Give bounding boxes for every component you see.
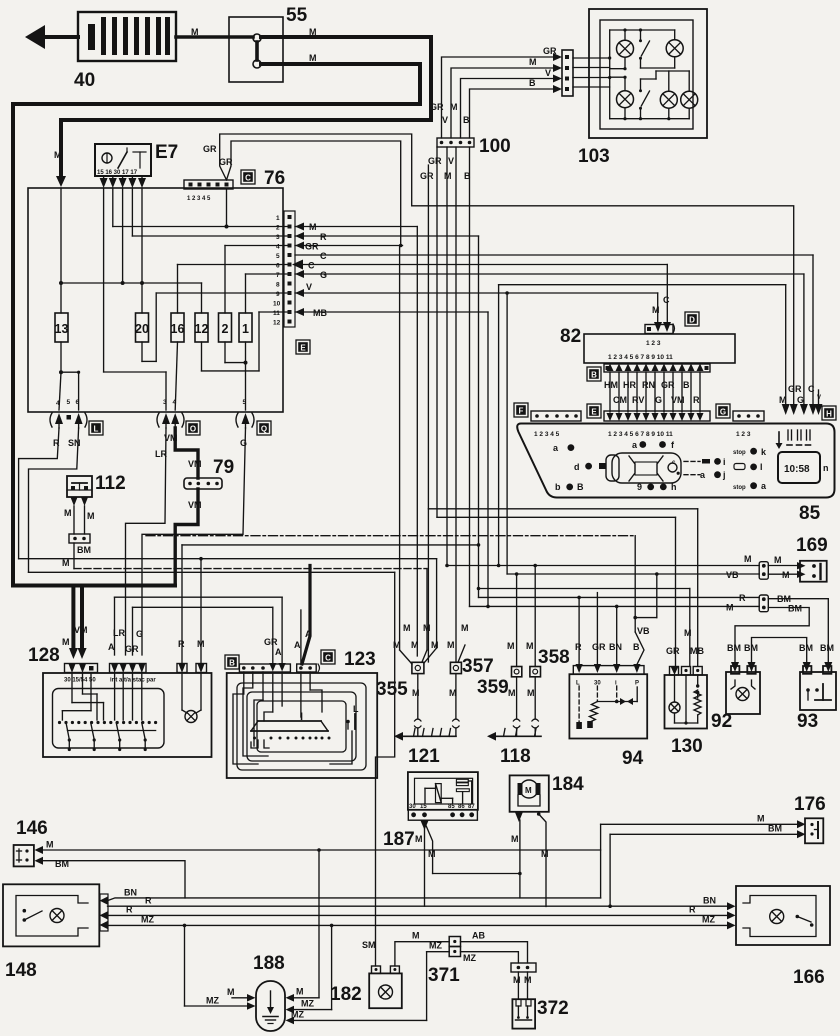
cluster car icon	[606, 453, 681, 483]
svg-text:GR: GR	[219, 157, 233, 167]
svg-text:R: R	[320, 232, 327, 242]
svg-text:E7: E7	[155, 142, 178, 163]
connector B of 123	[239, 663, 290, 672]
svg-text:85: 85	[799, 503, 821, 524]
svg-text:55: 55	[286, 5, 308, 26]
svg-text:GR: GR	[666, 646, 680, 656]
svg-text:stop: stop	[733, 485, 746, 491]
boxed label B	[587, 367, 601, 381]
svg-text:M: M	[309, 53, 317, 63]
connector E of cluster	[604, 411, 710, 438]
svg-text:355: 355	[376, 679, 408, 700]
svg-text:82: 82	[560, 326, 581, 347]
svg-text:MZ: MZ	[702, 915, 715, 925]
connector strip of 103	[553, 50, 573, 96]
svg-text:GR: GR	[125, 644, 139, 654]
svg-text:166: 166	[793, 967, 825, 988]
svg-text:M: M	[508, 688, 516, 698]
fuse 1	[239, 313, 252, 342]
wire BM 92 right to 93 left	[744, 638, 813, 673]
svg-text:GR: GR	[420, 171, 434, 181]
wire SN from connector L	[29, 428, 81, 572]
svg-text:O: O	[190, 425, 196, 434]
svg-text:VB: VB	[637, 626, 650, 636]
boxed label Q	[257, 421, 271, 435]
ground bus 118	[487, 729, 541, 768]
svg-text:BM: BM	[799, 643, 813, 653]
lamp unit 130	[665, 646, 708, 757]
svg-text:C: C	[308, 261, 315, 271]
wire M 100 to 103	[450, 57, 553, 138]
svg-text:182: 182	[330, 984, 362, 1005]
svg-text:176: 176	[794, 794, 826, 815]
ground connector 357	[447, 623, 494, 736]
svg-text:GR: GR	[305, 242, 319, 252]
svg-text:BM: BM	[768, 824, 782, 834]
svg-text:1 2 3 4 5 6 7 8 9 10 1: 1 2 3 4 5 6 7 8 9 10 11	[608, 431, 673, 438]
svg-text:1 2 3: 1 2 3	[736, 431, 751, 438]
svg-text:L: L	[94, 425, 99, 434]
wire GR to 128	[125, 607, 273, 655]
svg-text:M: M	[774, 555, 782, 565]
wire M to connector D	[652, 293, 670, 322]
internal wire pin C6 to fuse 16	[178, 265, 289, 314]
svg-text:MB: MB	[690, 646, 704, 656]
svg-text:D: D	[689, 316, 695, 325]
svg-text:146: 146	[16, 818, 48, 839]
svg-text:M: M	[423, 623, 431, 633]
svg-text:V: V	[817, 395, 821, 401]
svg-text:148: 148	[5, 960, 37, 981]
svg-text:6: 6	[276, 263, 280, 270]
connector above 372	[511, 963, 536, 999]
boxed label O	[186, 421, 200, 435]
svg-text:l: l	[760, 462, 763, 472]
boxed label H	[822, 406, 836, 420]
cluster stop indicators right	[733, 447, 767, 491]
svg-text:BM: BM	[77, 545, 91, 555]
svg-text:M: M	[525, 786, 532, 795]
connector 169	[796, 535, 828, 582]
fuse 2	[219, 313, 232, 342]
svg-text:VB: VB	[726, 570, 739, 580]
svg-text:C: C	[808, 384, 815, 394]
svg-text:79: 79	[213, 457, 234, 478]
svg-text:GR: GR	[428, 156, 442, 166]
fuse box 76 outline	[28, 188, 283, 412]
svg-text:12: 12	[273, 320, 281, 327]
svg-text:stop: stop	[733, 450, 746, 456]
wire M net y565	[445, 554, 759, 567]
internal wire fuse 2 bottom to fuse 1 bottom	[225, 342, 248, 410]
antenna arrow	[25, 25, 78, 49]
svg-text:5: 5	[243, 399, 247, 406]
svg-text:359: 359	[477, 677, 509, 698]
svg-text:7: 7	[276, 272, 280, 279]
svg-text:M: M	[684, 628, 692, 638]
boxed label E	[296, 340, 310, 354]
svg-text:92: 92	[711, 711, 732, 732]
cluster indicator dots bottom middle	[637, 482, 677, 492]
svg-text:A: A	[294, 640, 301, 650]
svg-text:j: j	[722, 470, 726, 480]
svg-text:86: 86	[458, 804, 465, 810]
svg-text:MZ: MZ	[463, 953, 476, 963]
svg-text:M: M	[191, 27, 199, 37]
lamp unit 103	[573, 9, 707, 167]
svg-text:11: 11	[273, 310, 280, 317]
wire GR 100 to 103	[430, 46, 557, 138]
wire G from connector Q	[136, 428, 247, 655]
svg-text:R: R	[693, 395, 700, 405]
svg-text:B: B	[229, 659, 235, 668]
motor 184	[510, 774, 585, 907]
svg-text:1 2 3: 1 2 3	[646, 340, 661, 347]
fuse box right pin column	[273, 211, 295, 327]
wire B 100 to 103	[463, 78, 553, 138]
switch 55	[229, 5, 308, 82]
lamp switch 166	[727, 886, 830, 988]
svg-text:i: i	[723, 457, 726, 467]
wire G pin7 long to cluster H	[295, 270, 804, 404]
boxed label D	[685, 312, 699, 326]
wire M to 128	[197, 557, 205, 664]
svg-text:LR: LR	[155, 449, 167, 459]
svg-text:SM: SM	[362, 940, 376, 950]
internal bus y283 to fuse 12	[61, 188, 202, 313]
wire GR from connector C pin5 loop 2	[219, 141, 401, 246]
svg-text:F: F	[519, 407, 524, 416]
svg-text:112: 112	[95, 473, 126, 494]
svg-text:VM: VM	[74, 625, 88, 635]
svg-text:357: 357	[462, 656, 494, 677]
wire MB net to 130	[428, 165, 697, 666]
svg-text:M: M	[444, 171, 452, 181]
svg-text:15 16 30 17 17: 15 16 30 17 17	[97, 170, 138, 176]
svg-text:76: 76	[264, 168, 285, 189]
internal wire E7 pin2 to pin M2	[113, 188, 288, 229]
internal wire pin G7 to fuse 1	[246, 274, 289, 313]
internal wire M feed to fuse 13 and bus	[59, 188, 80, 410]
svg-text:V: V	[448, 156, 454, 166]
svg-text:M: M	[652, 305, 660, 315]
relay E7	[95, 142, 178, 176]
svg-text:MZ: MZ	[141, 915, 154, 925]
svg-text:R: R	[575, 642, 582, 652]
svg-text:123: 123	[344, 649, 376, 670]
cluster clock	[778, 452, 829, 483]
svg-text:BM: BM	[820, 643, 834, 653]
connector O arrows	[157, 413, 184, 428]
svg-text:n: n	[823, 463, 829, 473]
boxed label B of 123	[225, 655, 239, 669]
svg-text:R: R	[178, 639, 185, 649]
svg-text:5: 5	[276, 253, 280, 260]
instrument cluster 85 outline	[517, 424, 834, 498]
svg-text:G: G	[655, 395, 662, 405]
noise filter 40	[74, 12, 176, 91]
svg-text:VM: VM	[188, 459, 202, 469]
wire V pin9 long to cluster H	[295, 282, 819, 404]
connector C of fuse box	[184, 168, 285, 202]
svg-text:4: 4	[56, 400, 60, 407]
wire M 182 to 371	[395, 931, 449, 967]
flasher unit 82	[560, 326, 735, 363]
128 internals	[58, 673, 201, 751]
wires B to E with labels	[604, 372, 700, 412]
device 372	[512, 998, 568, 1029]
svg-text:HR: HR	[623, 380, 636, 390]
svg-text:M: M	[393, 640, 401, 650]
wire R pin3 long	[295, 232, 479, 242]
svg-text:100: 100	[479, 136, 511, 157]
svg-text:118: 118	[500, 746, 531, 767]
svg-text:M: M	[87, 511, 95, 521]
wire C pin5 long to cluster H	[295, 251, 813, 404]
ground connector 355	[376, 246, 439, 737]
svg-text:GR: GR	[203, 144, 217, 154]
wire M net y588 to 130	[477, 587, 692, 666]
internal wire fuse 16 bottom to O4	[175, 342, 177, 410]
lamp 182	[330, 940, 402, 1008]
svg-text:V: V	[545, 68, 551, 78]
svg-text:C: C	[245, 174, 251, 183]
vertical V wire from 100 down	[448, 147, 456, 662]
connector 176	[794, 794, 826, 843]
svg-text:G: G	[797, 395, 804, 405]
wire M-BM net y606	[470, 603, 760, 666]
svg-text:L: L	[353, 704, 359, 714]
wire VB net upper	[146, 536, 657, 664]
wire BM to 92 left	[727, 604, 809, 673]
connector B of 82	[604, 364, 710, 373]
relay box 94	[569, 593, 647, 769]
svg-text:Q: Q	[261, 425, 267, 434]
svg-text:187: 187	[383, 829, 415, 850]
svg-text:G: G	[320, 270, 327, 280]
bottom pin numbers	[56, 399, 247, 407]
wire MZ right2 from 188 to 371	[291, 941, 449, 1021]
svg-text:V: V	[306, 282, 312, 292]
ground bus 121	[394, 729, 456, 768]
wire VB net y574	[505, 291, 759, 580]
svg-text:B: B	[529, 78, 536, 88]
cluster indicator dots top middle	[632, 440, 675, 450]
svg-text:E: E	[300, 344, 306, 353]
svg-text:1: 1	[276, 215, 280, 222]
vertical B wire from 100 down	[464, 147, 471, 606]
svg-text:130: 130	[671, 736, 703, 757]
internal wire pin V9 to fuse 20 bottom	[142, 293, 288, 361]
svg-text:M: M	[524, 975, 532, 985]
svg-text:M: M	[296, 987, 304, 997]
svg-text:10: 10	[273, 301, 281, 308]
svg-text:121: 121	[408, 746, 440, 767]
horn 112	[62, 473, 126, 569]
ignition switch 128	[28, 645, 212, 757]
svg-text:371: 371	[428, 965, 460, 986]
wire GR net to 130	[437, 517, 676, 666]
vertical M wire from 100 down	[444, 147, 452, 566]
svg-text:13: 13	[55, 322, 69, 336]
svg-text:M: M	[309, 222, 317, 232]
svg-text:1 2 3 4 5: 1 2 3 4 5	[187, 196, 211, 202]
svg-text:M: M	[782, 570, 790, 580]
wire R long y558	[19, 559, 437, 648]
fuse 12	[195, 313, 209, 342]
svg-text:1: 1	[242, 322, 249, 336]
internal wire pin GR4 to fuse 2	[225, 246, 288, 314]
wire GR pin4	[295, 242, 403, 252]
internal wire pin MB11 to fuse 12 bottom	[202, 312, 289, 371]
svg-text:93: 93	[797, 711, 818, 732]
internal wire E7 pin1 to bottom connector O3	[104, 188, 166, 410]
wire M thick upper from 55	[54, 27, 431, 187]
wire R to 128	[178, 543, 480, 663]
svg-text:GR: GR	[788, 384, 802, 394]
vertical M pin2 wire down	[416, 227, 418, 657]
connector pair R/BM	[759, 595, 768, 612]
svg-text:188: 188	[253, 953, 285, 974]
svg-text:G: G	[240, 438, 247, 448]
svg-text:B: B	[577, 482, 584, 492]
ground connector 358	[526, 564, 570, 737]
svg-text:B: B	[591, 371, 597, 380]
cluster indicator dots left	[553, 443, 606, 492]
svg-text:M: M	[64, 508, 72, 518]
svg-text:M: M	[46, 840, 54, 850]
wire BM to 93 right	[768, 594, 834, 672]
svg-text:M: M	[461, 623, 469, 633]
wire M right into 188	[294, 848, 321, 998]
svg-text:358: 358	[538, 647, 570, 668]
svg-text:M: M	[227, 987, 235, 997]
vertical R wire down	[478, 236, 480, 597]
svg-text:C: C	[325, 654, 331, 663]
wire R from connector L	[19, 428, 60, 559]
svg-text:M: M	[431, 640, 439, 650]
fuse 13	[55, 313, 69, 342]
wire V 100 to 103	[442, 68, 553, 138]
svg-text:2: 2	[276, 225, 280, 232]
wire C pin6 to connector D	[292, 260, 667, 323]
wire MZ right1 into 188	[294, 924, 333, 1010]
connector L arrows	[50, 413, 87, 428]
svg-text:GR: GR	[264, 637, 278, 647]
ground connector 359	[477, 572, 522, 736]
svg-text:128: 128	[28, 645, 60, 666]
svg-text:6: 6	[76, 399, 80, 406]
long wire MZ y925	[108, 915, 728, 926]
svg-text:3: 3	[163, 399, 167, 406]
svg-text:94: 94	[622, 748, 644, 769]
svg-text:M: M	[757, 814, 765, 824]
vertical GR wire from 100 down	[420, 147, 442, 517]
svg-text:M: M	[507, 641, 515, 651]
boxed label L	[89, 421, 103, 435]
switch 93	[797, 666, 836, 732]
svg-text:103: 103	[578, 146, 610, 167]
svg-text:MB: MB	[313, 308, 327, 318]
wire MZ from 371	[461, 952, 519, 963]
svg-text:SN: SN	[68, 438, 81, 448]
svg-text:5: 5	[67, 399, 71, 406]
wire A to 128	[108, 597, 282, 655]
svg-text:M: M	[447, 640, 455, 650]
wire BM from 146	[43, 859, 185, 898]
boxed label C of 123	[321, 650, 335, 664]
cluster top right marks	[776, 430, 811, 449]
svg-text:AB: AB	[472, 931, 485, 941]
wire VM thick from connector O through 79	[164, 428, 202, 586]
wire A into B	[275, 597, 282, 664]
wire M thick lower from 55 to left bus	[13, 53, 420, 659]
svg-text:MZ: MZ	[301, 999, 314, 1009]
svg-text:B: B	[464, 171, 471, 181]
cluster dashes and dots right of car	[684, 457, 726, 480]
connector H arrows	[779, 285, 823, 415]
svg-text:M: M	[412, 931, 420, 941]
svg-text:8: 8	[276, 282, 280, 289]
long wire R y916	[108, 905, 728, 916]
svg-text:9: 9	[637, 482, 642, 492]
svg-text:RV: RV	[632, 395, 644, 405]
internal wire E7 pin4 to pin R3	[132, 188, 288, 236]
svg-text:M: M	[415, 834, 423, 844]
svg-text:BM: BM	[55, 859, 69, 869]
svg-text:M: M	[526, 641, 534, 651]
svg-text:M: M	[726, 603, 734, 613]
svg-text:MZ: MZ	[206, 996, 219, 1006]
svg-text:M: M	[450, 102, 458, 112]
relay 187	[383, 772, 520, 906]
svg-text:20: 20	[135, 322, 149, 336]
svg-text:C: C	[320, 251, 327, 261]
svg-text:B: B	[633, 642, 640, 652]
wire M 40-55	[176, 27, 253, 37]
connector pair M/VB	[759, 555, 797, 580]
svg-text:h: h	[671, 482, 677, 492]
svg-text:1 2 3 4 5 6 7 8 9 10 1: 1 2 3 4 5 6 7 8 9 10 11	[608, 354, 673, 361]
svg-text:M: M	[411, 640, 419, 650]
wire AB from 371	[461, 931, 528, 964]
svg-text:M: M	[744, 554, 752, 564]
svg-text:R: R	[145, 896, 152, 906]
svg-text:d: d	[574, 462, 580, 472]
svg-text:BN: BN	[703, 896, 716, 906]
long wire BN y898	[108, 814, 798, 901]
wire MZ left into 188	[183, 924, 247, 1006]
wire SN long y572	[29, 572, 395, 966]
wire MB pin11	[295, 308, 488, 606]
fuse holder 371	[428, 937, 461, 987]
wire R net y597	[479, 593, 760, 666]
svg-text:87: 87	[468, 804, 475, 810]
svg-text:RN: RN	[642, 380, 655, 390]
connector 100	[437, 136, 511, 157]
fuel gauge sender 188	[227, 953, 294, 1031]
svg-text:C: C	[663, 295, 670, 305]
svg-text:BN: BN	[609, 642, 622, 652]
connector F of cluster	[531, 411, 581, 438]
wire M to cluster H	[499, 285, 786, 566]
connector Q arrow	[236, 413, 254, 428]
svg-text:12: 12	[195, 322, 209, 336]
svg-text:MZ: MZ	[291, 1010, 304, 1020]
svg-text:E: E	[591, 408, 597, 417]
boxed label G	[716, 404, 730, 418]
wire GR into B	[264, 607, 278, 664]
